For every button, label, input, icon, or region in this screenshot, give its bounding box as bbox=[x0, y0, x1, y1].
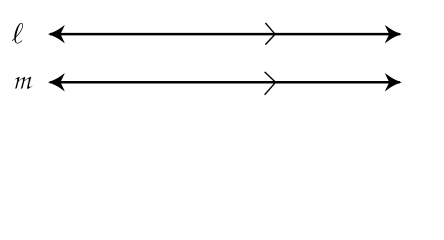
parallel mark chevron on line l bbox=[265, 23, 275, 45]
arrowhead left of line m bbox=[48, 73, 65, 92]
line m (wire) bbox=[50, 81, 400, 84]
arrowhead right of line m bbox=[385, 73, 402, 92]
label m for line m bbox=[14, 77, 32, 90]
arrowhead right of line l bbox=[385, 25, 402, 44]
parallel mark chevron on line m bbox=[265, 72, 276, 95]
label ell for line l bbox=[12, 23, 23, 44]
line l (wire) bbox=[50, 33, 400, 36]
arrowhead left of line l bbox=[48, 25, 65, 44]
